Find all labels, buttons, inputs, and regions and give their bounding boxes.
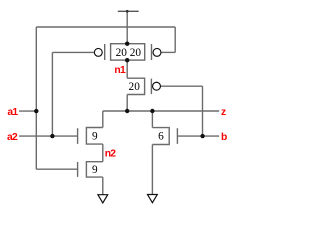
svg-text:z: z <box>221 107 226 118</box>
svg-text:n2: n2 <box>105 149 117 160</box>
ground symbol right <box>148 195 158 203</box>
svg-text:6: 6 <box>158 131 164 143</box>
pmos M5 body (20) <box>127 78 144 94</box>
wire n2 <box>102 144 104 162</box>
nmos M4 gate bar <box>77 162 79 177</box>
svg-text:9: 9 <box>92 131 98 143</box>
wire b vertical <box>202 86 204 136</box>
wire M4 source to ground <box>102 177 104 195</box>
junction VDD <box>126 10 129 13</box>
wire M6 drain to z rail <box>151 111 153 128</box>
nmos M6 gate bar <box>176 128 178 144</box>
wire a2 to M1 gate bubble <box>52 51 94 53</box>
power VDD bar <box>118 10 139 12</box>
junction a1 <box>34 109 38 113</box>
nmos M3 body (9) <box>86 128 102 145</box>
nmos M4 body (9) <box>86 162 102 177</box>
wire M3 drain up to z rail <box>102 111 104 128</box>
wire a1 to M4 gate <box>36 168 77 170</box>
junction a2 <box>50 134 54 138</box>
pmos M5 gate bubble <box>153 82 161 90</box>
wire n1 <box>126 60 128 78</box>
junction z at M5 drain <box>125 109 129 113</box>
svg-text:a2: a2 <box>7 132 18 143</box>
svg-text:20 20: 20 20 <box>116 47 142 59</box>
wire a1 top rail <box>36 26 175 28</box>
wire a1 to M2 gate bubble <box>161 51 175 53</box>
junction n1 at pmos drain <box>125 58 129 62</box>
wire a1 label to junction <box>19 110 36 112</box>
svg-text:b: b <box>221 132 227 143</box>
wire a2 vertical <box>51 52 53 136</box>
nmos M3 gate bar <box>77 128 79 144</box>
pmos M2 gate bubble <box>153 48 161 56</box>
wire M6 source to ground <box>151 145 153 195</box>
wire a1 vertical left bus <box>35 27 37 169</box>
pmos pair M1 M2 body (20 20) <box>111 44 145 60</box>
svg-text:n1: n1 <box>114 65 126 76</box>
junction VDD at pmos source <box>125 42 129 46</box>
ground symbol left <box>98 195 108 203</box>
pmos M5 gate bar <box>150 79 152 95</box>
nmos M6 body (6) <box>152 128 169 145</box>
wire VDD to M1/M2 source <box>126 11 128 43</box>
wire b row <box>177 135 219 137</box>
pmos M1 gate bar <box>104 44 106 60</box>
pmos M1 gate bubble <box>94 48 102 56</box>
svg-text:20: 20 <box>129 81 141 93</box>
wire a1 right drop to M2 gate <box>174 27 176 52</box>
junction b <box>200 134 204 138</box>
wire M5 gate bubble to b <box>161 85 203 87</box>
svg-text:9: 9 <box>92 164 98 176</box>
svg-text:a1: a1 <box>7 107 18 118</box>
wire M5 drain to z rail <box>126 95 128 112</box>
pmos M2 gate bar <box>151 44 153 60</box>
wire z rail <box>103 110 219 112</box>
wire a2 label to M3 gate <box>19 135 78 137</box>
junction z at M6 drain <box>150 109 154 113</box>
